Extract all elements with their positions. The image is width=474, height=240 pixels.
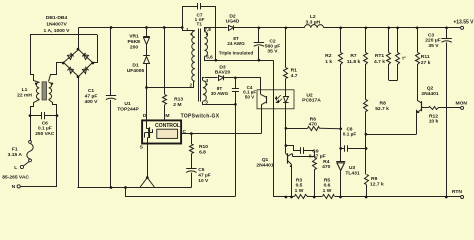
svg-text:M: M (165, 113, 169, 119)
svg-text:C9: C9 (312, 148, 319, 154)
svg-text:DB1-DB4: DB1-DB4 (46, 15, 68, 21)
svg-text:6.8: 6.8 (199, 150, 206, 156)
svg-text:Q2: Q2 (427, 86, 434, 92)
svg-text:470: 470 (309, 122, 317, 128)
svg-text:Q1: Q1 (262, 157, 269, 163)
svg-text:0.1 µF: 0.1 µF (38, 126, 52, 132)
svg-text:250 VAC: 250 VAC (35, 131, 55, 137)
svg-text:L: L (14, 165, 17, 171)
svg-text:t°: t° (402, 56, 406, 62)
svg-text:UF4005: UF4005 (127, 68, 145, 74)
svg-text:UG4D: UG4D (226, 19, 240, 25)
svg-text:10 k: 10 k (429, 119, 439, 125)
svg-text:R13: R13 (174, 96, 183, 102)
svg-text:R9: R9 (371, 176, 378, 182)
svg-text:BAV20: BAV20 (215, 70, 231, 76)
svg-text:0.5: 0.5 (296, 183, 303, 189)
svg-text:24 AWG: 24 AWG (227, 41, 245, 46)
svg-text:11.8 k: 11.8 k (347, 59, 361, 65)
svg-text:R1: R1 (291, 68, 298, 74)
svg-text:T1: T1 (197, 21, 203, 26)
svg-text:R6: R6 (310, 117, 317, 123)
svg-text:2N4401: 2N4401 (421, 91, 439, 97)
svg-text:R10: R10 (199, 144, 208, 150)
svg-text:35 V: 35 V (267, 48, 278, 54)
svg-text:5,6: 5,6 (206, 54, 213, 59)
svg-text:1 W: 1 W (295, 188, 304, 194)
svg-text:C1: C1 (88, 88, 95, 94)
svg-text:MON: MON (455, 100, 467, 106)
svg-text:P6KE: P6KE (128, 39, 142, 45)
svg-text:4.7 k: 4.7 k (374, 59, 385, 65)
svg-text:50 V: 50 V (245, 94, 255, 99)
svg-text:3.3 µH: 3.3 µH (305, 19, 320, 25)
svg-text:1 W: 1 W (323, 188, 332, 194)
svg-text:3: 3 (205, 99, 208, 104)
svg-text:35 V: 35 V (428, 43, 439, 49)
svg-text:10 V: 10 V (198, 178, 209, 184)
svg-text:30 AWG: 30 AWG (211, 91, 229, 96)
svg-text:220 µF: 220 µF (425, 38, 440, 44)
svg-text:1 k: 1 k (325, 59, 332, 65)
svg-text:52.7 k: 52.7 k (375, 106, 389, 112)
svg-text:1: 1 (186, 27, 189, 32)
svg-text:470: 470 (322, 164, 330, 170)
svg-text:R7: R7 (350, 53, 357, 59)
svg-text:Triple Insulated: Triple Insulated (219, 50, 254, 55)
svg-text:R12: R12 (429, 113, 438, 119)
svg-text:1N4007V: 1N4007V (46, 22, 67, 28)
svg-text:R2: R2 (325, 53, 332, 59)
svg-text:F1: F1 (12, 147, 18, 153)
svg-text:D1: D1 (132, 63, 139, 69)
svg-text:47 µF: 47 µF (85, 94, 98, 100)
svg-text:R11: R11 (421, 54, 430, 60)
svg-text:N: N (12, 184, 16, 190)
svg-text:3.15 A: 3.15 A (8, 152, 23, 158)
svg-text:2N4401: 2N4401 (256, 162, 274, 168)
svg-text:R5: R5 (324, 177, 331, 183)
svg-text:400 V: 400 V (85, 99, 99, 105)
svg-text:4: 4 (205, 78, 208, 83)
svg-text:PC817A: PC817A (302, 97, 321, 103)
svg-text:TOPSwitch-GX: TOPSwitch-GX (181, 114, 220, 120)
svg-text:22 mH: 22 mH (17, 93, 32, 99)
svg-text:U3: U3 (349, 165, 356, 171)
svg-text:0.1 µF: 0.1 µF (343, 131, 357, 136)
svg-text:1 A, 1000 V: 1 A, 1000 V (44, 28, 71, 34)
svg-text:12.7 k: 12.7 k (370, 182, 384, 188)
svg-text:L1: L1 (22, 87, 28, 93)
svg-text:VR1: VR1 (129, 34, 139, 40)
svg-text:C5: C5 (198, 167, 204, 173)
svg-text:L2: L2 (310, 14, 316, 20)
svg-text:27 k: 27 k (421, 60, 431, 66)
svg-text:C6: C6 (42, 120, 48, 126)
svg-text:TL431: TL431 (345, 171, 360, 177)
svg-text:TOP244P: TOP244P (117, 107, 139, 113)
svg-text:2 M: 2 M (173, 102, 181, 108)
svg-text:CONTROL: CONTROL (155, 123, 181, 129)
svg-text:RT1: RT1 (375, 53, 385, 59)
svg-text:47 µF: 47 µF (198, 172, 210, 178)
svg-text:D: D (143, 113, 147, 119)
svg-text:+13.55 V: +13.55 V (453, 20, 474, 26)
svg-text:4.7: 4.7 (291, 73, 298, 79)
svg-text:0.6: 0.6 (324, 183, 331, 189)
svg-text:R4: R4 (323, 159, 330, 165)
svg-text:U1: U1 (124, 101, 131, 107)
svg-text:200: 200 (130, 45, 138, 51)
svg-text:2: 2 (189, 82, 192, 87)
svg-text:R8: R8 (380, 100, 387, 106)
svg-text:RTN: RTN (452, 189, 463, 195)
svg-text:R3: R3 (296, 177, 303, 183)
svg-text:85-265 VAC: 85-265 VAC (2, 174, 29, 180)
